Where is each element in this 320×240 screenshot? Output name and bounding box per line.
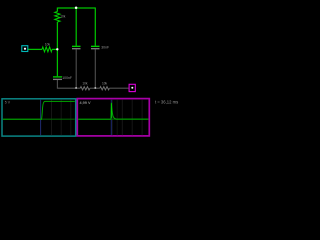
- svg-text:30nF: 30nF: [101, 46, 109, 50]
- svg-text:5 V: 5 V: [5, 101, 11, 105]
- svg-text:10k: 10k: [82, 82, 88, 86]
- svg-text:10k: 10k: [60, 15, 66, 19]
- svg-text:t = 36,12 ms: t = 36,12 ms: [155, 99, 178, 104]
- svg-text:100nF: 100nF: [62, 76, 72, 80]
- svg-text:10k: 10k: [102, 82, 108, 86]
- svg-text:4,99 V: 4,99 V: [80, 101, 91, 105]
- svg-text:10k: 10k: [45, 43, 51, 47]
